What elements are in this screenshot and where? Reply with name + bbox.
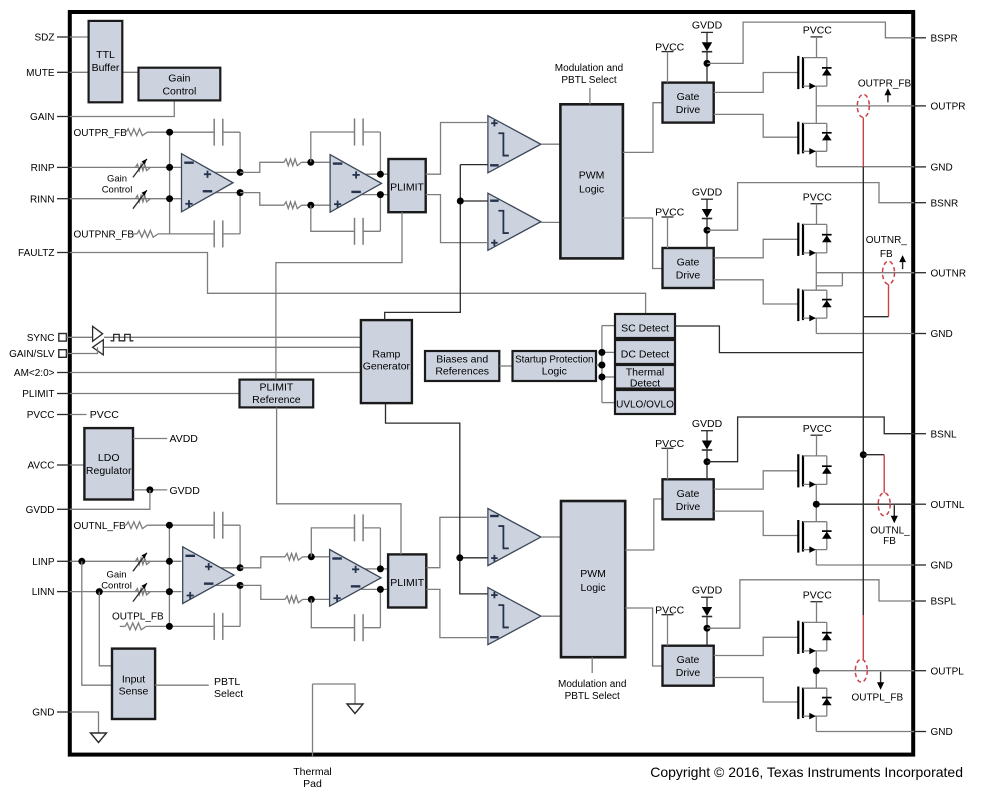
svg-text:PLIMIT: PLIMIT	[390, 577, 424, 589]
svg-text:Gate: Gate	[677, 488, 700, 500]
svg-text:BSPR: BSPR	[931, 33, 958, 44]
svg-text:PLIMIT: PLIMIT	[390, 182, 424, 194]
svg-text:Modulation and: Modulation and	[558, 679, 626, 690]
svg-text:GND: GND	[32, 708, 54, 719]
svg-text:PLIMIT: PLIMIT	[22, 389, 54, 400]
svg-text:SDZ: SDZ	[35, 33, 55, 44]
svg-text:OUTNL_: OUTNL_	[870, 526, 910, 537]
svg-text:OUTNL_FB: OUTNL_FB	[74, 521, 127, 532]
svg-text:PVCC: PVCC	[655, 207, 685, 219]
svg-text:References: References	[435, 366, 489, 378]
svg-text:Modulation and: Modulation and	[555, 63, 623, 74]
svg-text:FB: FB	[880, 249, 893, 260]
svg-text:PVCC: PVCC	[803, 423, 833, 435]
svg-text:Gain: Gain	[106, 569, 126, 580]
svg-text:TTL: TTL	[96, 49, 115, 61]
svg-text:GND: GND	[931, 329, 953, 340]
svg-text:PBTL: PBTL	[214, 676, 240, 688]
svg-text:BSNR: BSNR	[931, 198, 959, 209]
svg-text:Input: Input	[122, 674, 145, 686]
svg-text:PWM: PWM	[579, 170, 605, 182]
svg-text:PWM: PWM	[580, 568, 606, 580]
svg-text:LINP: LINP	[32, 557, 55, 568]
svg-text:SYNC: SYNC	[27, 333, 55, 344]
svg-text:Drive: Drive	[676, 270, 701, 282]
svg-text:LDO: LDO	[98, 452, 120, 464]
svg-text:Ramp: Ramp	[372, 349, 400, 361]
svg-text:PVCC: PVCC	[803, 25, 833, 37]
svg-text:Gate: Gate	[677, 91, 700, 103]
svg-text:Gate: Gate	[677, 654, 700, 666]
svg-text:Detect: Detect	[630, 378, 660, 390]
svg-text:GVDD: GVDD	[692, 418, 723, 430]
svg-text:Reference: Reference	[252, 394, 301, 406]
svg-text:OUTNR_: OUTNR_	[866, 235, 908, 246]
svg-text:Startup Protection: Startup Protection	[515, 355, 593, 366]
svg-text:DC Detect: DC Detect	[621, 349, 670, 361]
svg-text:Logic: Logic	[579, 184, 604, 196]
svg-text:Select: Select	[214, 688, 243, 700]
svg-text:PVCC: PVCC	[655, 604, 685, 616]
svg-text:PBTL Select: PBTL Select	[561, 75, 616, 86]
svg-text:PVCC: PVCC	[655, 438, 685, 450]
svg-text:OUTPNR_FB: OUTPNR_FB	[74, 230, 135, 241]
svg-text:GND: GND	[931, 163, 953, 174]
svg-text:Pad: Pad	[303, 778, 322, 790]
svg-text:PLIMIT: PLIMIT	[259, 382, 293, 394]
svg-text:OUTPL_FB: OUTPL_FB	[112, 611, 164, 622]
svg-text:OUTPL: OUTPL	[931, 666, 965, 677]
svg-text:OUTPR_FB: OUTPR_FB	[74, 128, 128, 139]
svg-text:AVCC: AVCC	[27, 461, 54, 472]
svg-text:OUTPL_FB: OUTPL_FB	[851, 692, 903, 703]
svg-text:GAIN: GAIN	[30, 112, 54, 123]
svg-text:Control: Control	[162, 86, 196, 98]
svg-text:GVDD: GVDD	[692, 187, 723, 199]
svg-text:Gain: Gain	[107, 173, 127, 184]
svg-text:FB: FB	[883, 536, 896, 547]
svg-text:AM<2:0>: AM<2:0>	[14, 368, 55, 379]
svg-text:Logic: Logic	[581, 582, 606, 594]
svg-text:Drive: Drive	[676, 104, 701, 116]
svg-text:Gain: Gain	[168, 73, 190, 85]
svg-text:FAULTZ: FAULTZ	[18, 248, 54, 259]
svg-text:PVCC: PVCC	[803, 191, 833, 203]
svg-text:RINP: RINP	[31, 163, 55, 174]
svg-text:Generator: Generator	[363, 361, 411, 373]
svg-text:OUTNR: OUTNR	[931, 268, 967, 279]
svg-text:PBTL Select: PBTL Select	[565, 691, 620, 702]
svg-text:GND: GND	[931, 727, 953, 738]
svg-text:PVCC: PVCC	[803, 589, 833, 601]
svg-text:GVDD: GVDD	[26, 505, 55, 516]
svg-text:Drive: Drive	[676, 501, 701, 513]
svg-text:LINN: LINN	[32, 587, 55, 598]
svg-text:Control: Control	[102, 184, 133, 195]
svg-text:Biases and: Biases and	[436, 354, 488, 366]
svg-text:BSPL: BSPL	[931, 597, 957, 608]
svg-text:PVCC: PVCC	[27, 410, 55, 421]
svg-text:GVDD: GVDD	[170, 485, 201, 497]
svg-text:GVDD: GVDD	[692, 585, 723, 597]
svg-text:GND: GND	[931, 561, 953, 572]
svg-text:UVLO/OVLO: UVLO/OVLO	[616, 400, 674, 411]
svg-text:OUTPR: OUTPR	[931, 102, 966, 113]
svg-text:RINN: RINN	[30, 194, 54, 205]
svg-text:Sense: Sense	[119, 686, 149, 698]
svg-text:Thermal: Thermal	[293, 766, 332, 778]
svg-text:PVCC: PVCC	[90, 409, 120, 421]
svg-text:Gate: Gate	[677, 257, 700, 269]
svg-text:BSNL: BSNL	[931, 429, 958, 440]
svg-text:PVCC: PVCC	[655, 41, 685, 53]
svg-text:Control: Control	[101, 580, 132, 591]
svg-text:Buffer: Buffer	[92, 62, 120, 74]
svg-text:SC Detect: SC Detect	[621, 323, 669, 335]
svg-text:Copyright © 2016, Texas Instru: Copyright © 2016, Texas Instruments Inco…	[650, 764, 963, 780]
svg-text:OUTNL: OUTNL	[931, 500, 965, 511]
svg-text:GAIN/SLV: GAIN/SLV	[9, 349, 55, 360]
svg-text:Logic: Logic	[542, 366, 567, 378]
svg-text:OUTPR_FB: OUTPR_FB	[858, 78, 912, 89]
svg-text:Drive: Drive	[676, 667, 701, 679]
svg-text:GVDD: GVDD	[692, 20, 723, 32]
svg-text:AVDD: AVDD	[170, 433, 199, 445]
svg-text:Regulator: Regulator	[86, 465, 132, 477]
svg-text:MUTE: MUTE	[26, 68, 55, 79]
